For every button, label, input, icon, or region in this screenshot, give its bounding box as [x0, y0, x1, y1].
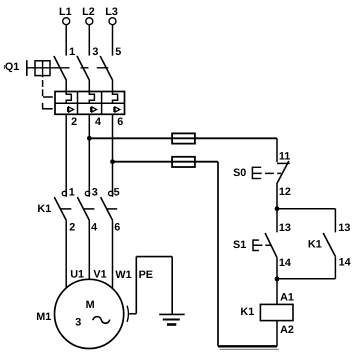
svg-text:1: 1	[69, 46, 75, 58]
svg-text:V1: V1	[93, 269, 106, 281]
svg-text:5: 5	[114, 186, 120, 198]
svg-text:M: M	[86, 299, 95, 311]
svg-text:S0: S0	[233, 167, 246, 179]
svg-text:2: 2	[69, 221, 75, 233]
svg-text:PE: PE	[139, 269, 153, 281]
svg-text:3: 3	[92, 186, 98, 198]
svg-text:Q1: Q1	[5, 61, 19, 73]
svg-text:A1: A1	[280, 291, 294, 303]
svg-text:6: 6	[117, 116, 123, 128]
svg-text:S1: S1	[233, 239, 246, 251]
svg-text:4: 4	[95, 116, 101, 128]
svg-text:11: 11	[279, 150, 290, 162]
svg-text:14: 14	[339, 256, 351, 268]
svg-text:M1: M1	[36, 311, 51, 323]
svg-text:1: 1	[69, 186, 75, 198]
svg-text:K1: K1	[240, 306, 254, 318]
svg-text:K1: K1	[37, 203, 51, 215]
svg-text:4: 4	[91, 221, 97, 233]
svg-text:L2: L2	[82, 6, 95, 18]
svg-text:3: 3	[75, 317, 81, 329]
svg-text:L1: L1	[59, 6, 72, 18]
svg-text:13: 13	[279, 222, 291, 234]
svg-text:U1: U1	[70, 269, 84, 281]
svg-text:2: 2	[71, 116, 77, 128]
svg-text:12: 12	[279, 186, 291, 198]
svg-text:14: 14	[279, 257, 291, 269]
svg-text:3: 3	[92, 46, 98, 58]
svg-text:K1: K1	[308, 239, 322, 251]
svg-text:W1: W1	[115, 269, 131, 281]
svg-text:A2: A2	[280, 324, 294, 336]
svg-text:6: 6	[114, 221, 120, 233]
svg-text:5: 5	[115, 46, 121, 58]
svg-text:13: 13	[338, 222, 350, 234]
svg-text:L3: L3	[105, 6, 118, 18]
